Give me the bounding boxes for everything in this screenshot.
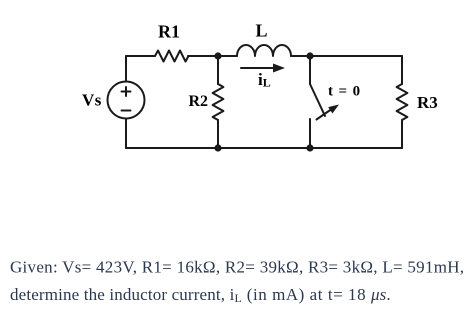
svg-text:t = 0: t = 0 (328, 84, 361, 100)
svg-text:R3: R3 (417, 93, 438, 112)
svg-text:R1: R1 (158, 22, 180, 42)
svg-text:L: L (256, 21, 268, 41)
svg-text:determine the inductor current: determine the inductor current, iL (in m… (10, 285, 391, 305)
svg-text:Given: Vs= 423V, R1= 16kΩ, R2=: Given: Vs= 423V, R1= 16kΩ, R2= 39kΩ, R3=… (10, 258, 464, 277)
svg-text:R2: R2 (189, 93, 209, 110)
svg-text:Vs: Vs (82, 91, 102, 110)
